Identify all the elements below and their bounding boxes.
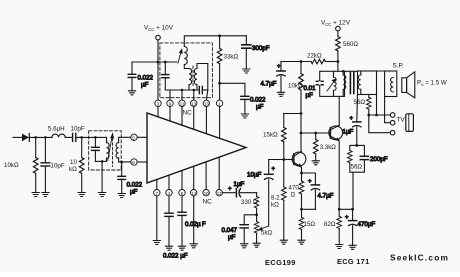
svg-text:6: 6 bbox=[132, 160, 135, 165]
pin 4 bottom bbox=[166, 175, 172, 196]
svg-text:1µF: 1µF bbox=[234, 181, 245, 188]
node vcc10 tap bbox=[157, 61, 160, 64]
svg-text:13: 13 bbox=[191, 101, 196, 106]
svg-text:8.2: 8.2 bbox=[271, 195, 280, 202]
node Q1 base bbox=[282, 158, 285, 161]
resistor R15 56 bbox=[354, 95, 372, 116]
wire wiper up bbox=[268, 180, 270, 226]
svg-text:+: + bbox=[228, 187, 232, 193]
pin 6 bbox=[131, 159, 147, 165]
capacitor C9 0.022uF bbox=[241, 83, 266, 114]
node Q2 emitter junction bbox=[338, 208, 341, 211]
inductor T1 secondary bbox=[116, 137, 131, 162]
svg-text:µF: µF bbox=[130, 189, 138, 196]
resistor R3 33k bbox=[217, 36, 238, 100]
resistor R11 15 bbox=[299, 217, 315, 240]
wire bias line bbox=[281, 61, 311, 63]
T2 tuning arrow bbox=[178, 48, 183, 63]
svg-text:TV: TV bbox=[397, 117, 406, 124]
inductor T1 primary bbox=[95, 137, 109, 161]
pin 7 bottom bbox=[154, 180, 160, 196]
node pot top bbox=[255, 213, 258, 216]
capacitor C1 10pF bbox=[41, 137, 65, 192]
transistor Q1 ECG199 bbox=[284, 152, 306, 168]
wire pin14 to ground bbox=[193, 196, 195, 244]
inductor L2 tuned bbox=[327, 71, 336, 96]
svg-text:5kΩ: 5kΩ bbox=[261, 230, 273, 237]
wire pin7 to ground bbox=[156, 196, 158, 241]
node rail 33k bbox=[218, 34, 221, 37]
node j2 bbox=[44, 136, 47, 139]
op-amp U1 triangle bbox=[147, 113, 246, 183]
svg-text:µF: µF bbox=[306, 92, 314, 99]
svg-text:µF: µF bbox=[141, 82, 149, 89]
wire Q2 collector up bbox=[338, 96, 340, 125]
tone loop wires bbox=[350, 145, 365, 209]
inductor T2 primary bbox=[189, 69, 192, 91]
capacitor C17 470uF bbox=[345, 215, 375, 245]
svg-text:82Ω: 82Ω bbox=[324, 221, 336, 228]
svg-text:1µF: 1µF bbox=[343, 129, 354, 136]
transistor Q2 ECG171 bbox=[329, 125, 343, 141]
capacitor C16 4.7uF bbox=[308, 179, 334, 209]
svg-text:+: + bbox=[345, 215, 349, 221]
svg-text:15kΩ: 15kΩ bbox=[263, 132, 278, 139]
svg-text:+: + bbox=[277, 64, 281, 70]
svg-text:10pF: 10pF bbox=[51, 163, 65, 170]
ground bbox=[42, 193, 49, 197]
potentiometer R5 5k bbox=[254, 222, 272, 244]
ground bbox=[178, 246, 185, 250]
svg-text:56Ω: 56Ω bbox=[351, 164, 363, 171]
ground bbox=[253, 243, 260, 247]
node bias 10k bbox=[300, 60, 303, 63]
node tap B bbox=[375, 114, 378, 117]
wire diode to box bbox=[29, 136, 52, 138]
svg-text:12: 12 bbox=[217, 191, 222, 196]
pin 8 bottom bbox=[179, 171, 185, 196]
power Vcc +10V terminal bbox=[144, 25, 174, 40]
node T1 gnd tap bbox=[101, 160, 104, 163]
capacitor C3 tank bbox=[92, 137, 100, 161]
transformer T2 dashed box bbox=[160, 43, 213, 98]
wire junction to 470uF bbox=[339, 209, 352, 220]
resistor R8 10k bbox=[288, 62, 303, 152]
svg-text:14: 14 bbox=[191, 191, 196, 196]
resistor R14 560 bbox=[336, 31, 359, 71]
transformer T3 core bbox=[350, 73, 353, 94]
pin 10 bottom bbox=[203, 162, 209, 196]
capacitor C12 1uF series bbox=[228, 181, 257, 197]
capacitor C8 300pF bbox=[242, 36, 270, 69]
pin 13 top bbox=[203, 100, 209, 134]
speaker SP1 bbox=[402, 72, 415, 98]
inductor L3 speaker coil bbox=[385, 71, 397, 97]
wire 15k top to collector line bbox=[284, 113, 301, 115]
capacitor C11 0.02uF pin8 bbox=[178, 196, 206, 246]
ground bbox=[153, 241, 160, 245]
capacitor C13 0.047uF bbox=[222, 225, 249, 244]
wire rail top left bbox=[184, 36, 246, 47]
resistor R12 3.3k bbox=[313, 133, 336, 161]
node pin1 tap bbox=[218, 82, 221, 85]
svg-text:kΩ: kΩ bbox=[69, 166, 77, 173]
capacitor C15 4.7uF bbox=[261, 62, 286, 93]
svg-text:ECG199: ECG199 bbox=[265, 258, 296, 267]
node T2 bottom bbox=[193, 89, 196, 92]
terminal t2 bbox=[390, 120, 395, 125]
svg-text:NC: NC bbox=[183, 110, 193, 117]
resistor R6 15k bbox=[263, 114, 286, 160]
pin 11 top bbox=[179, 100, 185, 125]
svg-text:0.01: 0.01 bbox=[304, 85, 317, 92]
inductor L1 5.6uH bbox=[48, 126, 65, 138]
inductor T3 secondary bbox=[358, 71, 377, 95]
svg-text:300pF: 300pF bbox=[252, 45, 270, 52]
ground bbox=[243, 69, 250, 73]
ground bbox=[78, 193, 85, 197]
wire vcc10 tap left bbox=[132, 61, 165, 63]
node Q2 base wire bbox=[300, 132, 303, 135]
inductor T2 secondary bbox=[194, 64, 208, 91]
wire tap right bbox=[220, 82, 245, 84]
pin 1 top bbox=[216, 100, 222, 138]
capacitor C18 0.01uF in tank bbox=[304, 81, 324, 99]
ground bbox=[241, 114, 248, 118]
capacitor C19 1uF bbox=[343, 116, 361, 145]
svg-text:4.7µF: 4.7µF bbox=[318, 193, 334, 200]
svg-text:3.3kΩ: 3.3kΩ bbox=[320, 144, 337, 151]
ground bbox=[298, 240, 305, 244]
svg-text:0.02µ F: 0.02µ F bbox=[185, 221, 206, 228]
svg-text:470: 470 bbox=[289, 185, 300, 192]
svg-text:15Ω: 15Ω bbox=[304, 221, 316, 228]
wire C2 to box T1 bbox=[76, 136, 96, 138]
ground bbox=[128, 91, 135, 95]
pin 5 bbox=[131, 134, 147, 140]
ground bbox=[241, 244, 248, 248]
wire Q1 emitter down bbox=[301, 167, 303, 181]
svg-text:560Ω: 560Ω bbox=[343, 41, 358, 48]
svg-text:0.047: 0.047 bbox=[222, 227, 238, 234]
svg-text:33kΩ: 33kΩ bbox=[224, 54, 239, 61]
wire 10uF to base node bbox=[269, 159, 284, 161]
node rail J1 bbox=[337, 60, 340, 63]
T1 tuning arrow bbox=[108, 133, 114, 161]
wire T3 sec bottom taps bbox=[369, 95, 391, 133]
svg-text:Ω: Ω bbox=[291, 192, 296, 199]
pin 13 top bbox=[191, 100, 197, 129]
capacitor C4 0.022uF bbox=[118, 162, 143, 196]
svg-text:ECG 171: ECG 171 bbox=[337, 257, 370, 266]
svg-text:10µF: 10µF bbox=[247, 172, 261, 179]
terminal t3 bbox=[390, 130, 395, 135]
svg-text:470µF: 470µF bbox=[358, 221, 376, 228]
wire T2 pins drop bbox=[170, 90, 208, 100]
wire input line bbox=[13, 136, 22, 138]
node 3.3k tap bbox=[314, 132, 317, 135]
ground bbox=[280, 240, 287, 244]
svg-text:22kΩ: 22kΩ bbox=[307, 53, 322, 60]
pin 9 top bbox=[167, 100, 173, 121]
svg-text:11: 11 bbox=[180, 101, 185, 106]
svg-text:10kΩ: 10kΩ bbox=[288, 83, 303, 90]
node T2 in bbox=[164, 61, 167, 64]
diode D1 bbox=[22, 133, 29, 141]
node tone loop top bbox=[355, 144, 358, 147]
svg-text:13: 13 bbox=[204, 101, 209, 106]
svg-text:0.022: 0.022 bbox=[138, 75, 154, 82]
ground bbox=[118, 194, 125, 198]
wire L1 to C2 bbox=[65, 136, 72, 138]
svg-text:5.6µH: 5.6µH bbox=[48, 126, 65, 133]
svg-text:4.7µF: 4.7µF bbox=[261, 81, 277, 88]
pin 14 bottom bbox=[191, 166, 197, 196]
pin 12 bottom bbox=[216, 157, 222, 196]
svg-text:0.022: 0.022 bbox=[250, 97, 266, 104]
wire emitter to C16 bbox=[302, 173, 316, 185]
node T3 top bbox=[342, 70, 345, 73]
svg-text:Po = 1.5 W: Po = 1.5 W bbox=[417, 80, 447, 87]
svg-text:10: 10 bbox=[70, 159, 77, 166]
pin 3 top bbox=[155, 100, 161, 117]
resistor R9 22k horizontal bbox=[307, 53, 338, 64]
svg-text:VCC + 12V: VCC + 12V bbox=[321, 20, 351, 28]
wire speaker bottom bbox=[385, 97, 391, 123]
wire Q2 emitter down bbox=[338, 141, 340, 216]
tank loop L2 bbox=[320, 71, 345, 96]
ground bbox=[277, 92, 284, 96]
terminal t1 bbox=[390, 113, 395, 118]
capacitor C20 200pF bbox=[360, 156, 387, 163]
ground bbox=[32, 193, 39, 197]
svg-text:10: 10 bbox=[204, 191, 209, 196]
wire pin12 right bbox=[222, 192, 235, 194]
wire to C13 bbox=[244, 215, 256, 225]
connector jack bbox=[406, 114, 414, 132]
svg-text:0.022 µF: 0.022 µF bbox=[163, 253, 188, 260]
node T2 p8 bbox=[181, 89, 184, 92]
svg-text:S.P.: S.P. bbox=[393, 63, 404, 70]
node 470uF top bbox=[351, 208, 354, 211]
resistor R7 8.2k bbox=[271, 160, 286, 241]
node emitter chain bbox=[300, 208, 303, 211]
node j1 bbox=[34, 136, 37, 139]
svg-text:kΩ: kΩ bbox=[271, 202, 279, 209]
resistor R16 56 tone bbox=[348, 151, 363, 171]
wire T2 bottom bbox=[165, 62, 198, 90]
svg-text:µF: µF bbox=[256, 104, 264, 111]
capacitor C10 0.022uF pin4 bbox=[163, 196, 188, 260]
capacitor C14 10uF bbox=[247, 160, 276, 180]
power Vcc +12V terminal bbox=[321, 20, 351, 31]
resistor R4 330 bbox=[241, 193, 259, 222]
ground bbox=[190, 244, 197, 248]
svg-text:+: + bbox=[308, 179, 312, 185]
svg-text:+: + bbox=[350, 116, 354, 122]
svg-text:10kΩ: 10kΩ bbox=[4, 162, 19, 169]
svg-text:NC: NC bbox=[203, 199, 213, 206]
node tap A bbox=[367, 114, 370, 117]
resistor R13 82 bbox=[324, 216, 342, 244]
node Q1 emitter bbox=[300, 172, 303, 175]
node T1 sec bottom bbox=[120, 161, 123, 164]
svg-text:µF: µF bbox=[228, 234, 236, 241]
ground bbox=[312, 161, 319, 165]
svg-text:VCC + 10V: VCC + 10V bbox=[144, 25, 174, 33]
svg-text:5: 5 bbox=[132, 135, 135, 140]
wire C16 to chain bbox=[302, 208, 316, 210]
T1 core dashed bbox=[112, 134, 114, 167]
node j3 bbox=[80, 136, 83, 139]
ground bbox=[99, 193, 106, 197]
wire Q1 collector to Q2 base bbox=[301, 132, 330, 134]
svg-text:330 Ω: 330 Ω bbox=[241, 199, 258, 206]
wire Vcc10 down to pin3 bbox=[157, 40, 159, 100]
svg-text:56Ω: 56Ω bbox=[354, 99, 366, 106]
node T1 in bbox=[94, 136, 97, 139]
capacitor C5 0.022uF bbox=[128, 62, 153, 91]
ground bbox=[165, 246, 172, 250]
svg-text:0.022: 0.022 bbox=[127, 182, 143, 189]
resistor R2 10k bbox=[69, 137, 84, 192]
svg-text:10pF: 10pF bbox=[71, 126, 85, 133]
wire T1 bottom bbox=[95, 160, 106, 162]
resistor R1 10k bbox=[4, 137, 38, 192]
T2 core dashed bbox=[192, 66, 194, 87]
capacitor C2 10pF series bbox=[71, 126, 85, 142]
transformer T1 dashed box bbox=[89, 131, 122, 170]
ground bbox=[336, 245, 343, 249]
inductor T3 primary bbox=[343, 71, 346, 96]
wire tap down bbox=[101, 161, 103, 192]
capacitor C7 series in T2 bbox=[199, 86, 208, 93]
svg-text:200pF: 200pF bbox=[370, 156, 388, 163]
resistor R10 470 bbox=[289, 181, 304, 217]
svg-text:+: + bbox=[272, 167, 276, 173]
wire top rail right bbox=[345, 70, 385, 72]
svg-text:SeekIC.com: SeekIC.com bbox=[390, 253, 449, 263]
wire T3 sec to 1uF bbox=[356, 95, 359, 122]
node collector line bbox=[300, 112, 303, 115]
capacitor C6 in T2 bbox=[162, 62, 169, 90]
ground bbox=[349, 245, 356, 249]
inductor T2 drive coil bbox=[184, 47, 190, 69]
